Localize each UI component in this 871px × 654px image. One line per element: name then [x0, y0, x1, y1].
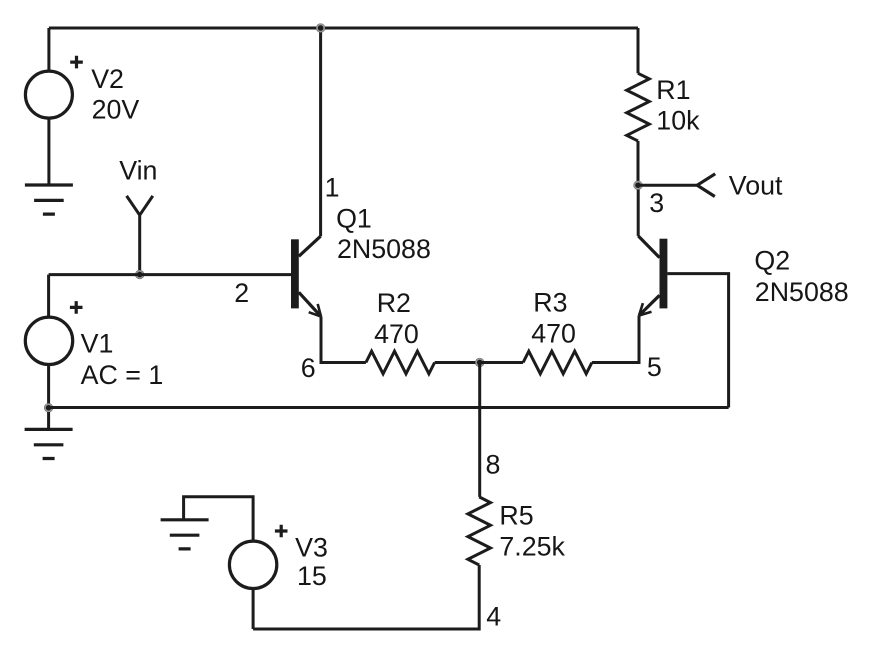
- wire R1 top: [637, 28, 640, 73]
- Q1 emitter with arrow: [299, 292, 321, 316]
- resistor R3: [523, 351, 592, 374]
- wire R3 to Q2 emitter: [592, 316, 639, 363]
- svg-text:7.25k: 7.25k: [499, 532, 565, 562]
- resistor R2: [366, 351, 435, 374]
- wire Vout stub: [638, 184, 697, 187]
- svg-text:Vin: Vin: [119, 156, 157, 186]
- wire V1 top: [47, 275, 50, 318]
- svg-text:V2: V2: [91, 64, 124, 94]
- wire V3 top: [184, 497, 254, 541]
- V2 plus sign: [70, 56, 83, 69]
- svg-text:Q2: Q2: [754, 246, 790, 276]
- svg-text:2: 2: [234, 278, 249, 308]
- wire node to R3: [480, 361, 523, 364]
- Q2 collector: [638, 236, 659, 258]
- svg-text:V1: V1: [81, 329, 114, 359]
- wire R2 to node: [435, 361, 480, 364]
- voltage source V2: [25, 71, 72, 118]
- svg-text:Q1: Q1: [336, 204, 372, 234]
- node dot top rail: [316, 23, 325, 32]
- resistor R5: [468, 497, 491, 565]
- svg-text:R2: R2: [377, 288, 411, 318]
- node dot emitter junction: [475, 358, 484, 367]
- svg-text:3: 3: [649, 188, 664, 218]
- Vout probe: [697, 174, 715, 197]
- svg-text:V3: V3: [295, 533, 328, 563]
- transistor Q1 base bar: [291, 239, 299, 308]
- svg-text:20V: 20V: [92, 95, 140, 125]
- wire R1 bottom: [637, 141, 640, 185]
- svg-text:R3: R3: [533, 288, 567, 318]
- wire V2 bottom: [47, 118, 50, 184]
- svg-text:15: 15: [297, 561, 327, 591]
- transistor Q2 base bar: [660, 239, 668, 309]
- voltage source V3: [229, 541, 276, 588]
- ground (V3): [161, 520, 209, 549]
- node dot Vin/base: [135, 270, 144, 279]
- Q1 collector: [299, 236, 321, 256]
- V1 plus sign: [70, 301, 83, 314]
- wire Q1 emitter vertical: [321, 317, 366, 363]
- svg-text:8: 8: [486, 450, 501, 480]
- node dot Vout node 3: [633, 181, 642, 190]
- ground (V1): [25, 429, 73, 458]
- svg-text:Vout: Vout: [729, 170, 783, 200]
- wire Q2 base: [667, 274, 728, 408]
- node dot gnd rail: [44, 403, 53, 412]
- svg-text:2N5088: 2N5088: [755, 277, 849, 307]
- svg-text:R5: R5: [499, 501, 533, 531]
- svg-text:470: 470: [531, 319, 576, 349]
- svg-text:R1: R1: [656, 75, 690, 105]
- svg-text:10k: 10k: [656, 106, 700, 136]
- svg-text:6: 6: [301, 353, 316, 383]
- voltage source V1: [25, 317, 72, 364]
- wire node to R5: [478, 363, 481, 497]
- wire Q1 collector vertical: [319, 28, 322, 236]
- wire base rail to Q1: [49, 273, 291, 276]
- wire top rail: [49, 27, 638, 30]
- ground (V2): [25, 185, 73, 214]
- wire V3 bottom: [252, 589, 255, 630]
- wire R5 bottom: [253, 565, 479, 629]
- svg-text:470: 470: [374, 319, 419, 349]
- Q2 emitter with arrow: [639, 295, 660, 315]
- antenna Vin: [127, 196, 153, 275]
- svg-text:2N5088: 2N5088: [337, 234, 431, 264]
- V3 plus sign: [275, 525, 288, 538]
- svg-text:5: 5: [647, 352, 662, 382]
- svg-text:4: 4: [486, 602, 501, 632]
- wire gnd rail: [49, 406, 729, 409]
- wire V2 top: [47, 28, 50, 71]
- wire V1 bottom: [47, 365, 50, 430]
- wire Q2 collector vertical: [637, 185, 640, 236]
- svg-text:AC = 1: AC = 1: [81, 360, 164, 390]
- resistor R1: [627, 73, 650, 141]
- svg-text:1: 1: [325, 173, 340, 203]
